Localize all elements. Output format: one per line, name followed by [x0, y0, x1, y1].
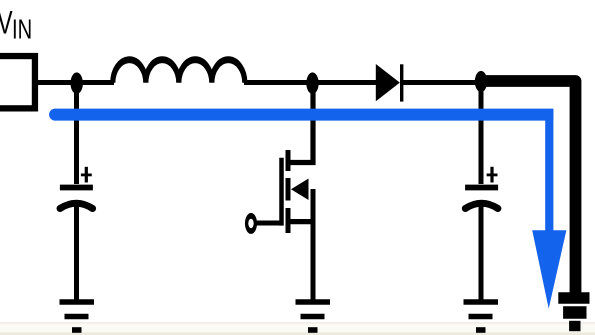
- ground (output, thick): [558, 298, 589, 326]
- bottom edge strip: [0, 322, 595, 335]
- current path arrowhead (blue): [532, 230, 566, 308]
- node A (input node dot): [71, 72, 83, 94]
- transistor Q1 body arrow: [291, 179, 309, 201]
- current path (blue): [49, 109, 61, 121]
- diode D1 triangle: [376, 64, 400, 101]
- capacitor C1 curved plate: [60, 203, 93, 208]
- transistor Q1 gate circle hole: [248, 219, 253, 228]
- inductor L1: [113, 60, 245, 83]
- wire C2 to ground: [479, 205, 484, 300]
- wire main bus left: [34, 80, 114, 85]
- capacitor C2 top plate: [465, 185, 498, 191]
- transistor Q1 top plate (drain): [286, 150, 291, 171]
- svg-text:IN: IN: [12, 14, 32, 45]
- source box VIN: [0, 56, 35, 108]
- transistor Q1 gate lead: [251, 221, 283, 226]
- wire output cap branch: [479, 82, 484, 184]
- label VIN: [0, 5, 32, 46]
- wire drain: [287, 83, 313, 163]
- transistor Q1 bottom plate (source): [286, 208, 291, 233]
- transistor Q1 middle plate (body): [286, 178, 291, 201]
- node B (switch node dot): [306, 72, 318, 94]
- diode D1 cathode bar: [400, 64, 403, 101]
- capacitor C2 curved plate: [465, 203, 498, 208]
- ground (switch): [296, 302, 331, 330]
- wire input cap branch: [74, 83, 79, 184]
- transistor Q1 gate terminal circle: [245, 213, 257, 234]
- wire bus diode to output node: [244, 80, 481, 85]
- wire thick output: [481, 81, 576, 295]
- wire C1 to ground: [74, 205, 79, 300]
- capacitor C1 top plate: [60, 185, 93, 191]
- capacitor C2 plus sign: [487, 173, 498, 176]
- node C (output node dot): [475, 71, 487, 92]
- ground (input): [60, 302, 95, 330]
- wire source horizontal: [286, 219, 314, 224]
- transistor Q1 gate bar: [279, 158, 284, 226]
- capacitor C1 plus sign: [81, 173, 92, 176]
- ground (output cap): [464, 302, 499, 330]
- wire source/body vertical: [311, 189, 316, 300]
- svg-text:V: V: [0, 5, 13, 41]
